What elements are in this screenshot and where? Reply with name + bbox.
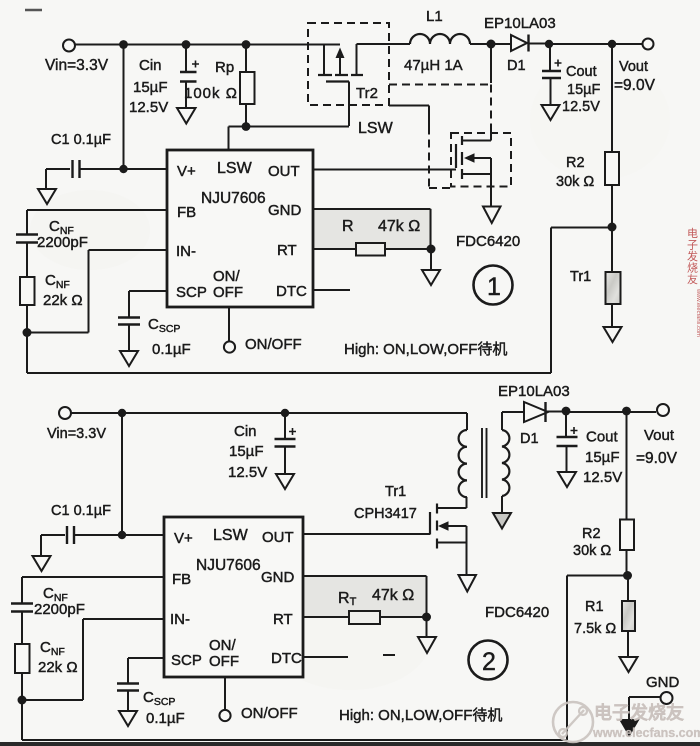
node output divider junction (circuit 2) [623, 571, 632, 580]
svg-text:Tr1: Tr1 [385, 484, 406, 500]
svg-text:OUT: OUT [262, 529, 294, 546]
svg-text:电: 电 [687, 227, 698, 240]
svg-text:FDC6420: FDC6420 [456, 233, 520, 250]
svg-text:Cin: Cin [139, 57, 162, 74]
svg-text:RT: RT [273, 611, 293, 628]
svg-text:电子发烧友: 电子发烧友 [594, 702, 684, 723]
svg-text:V+: V+ [177, 163, 196, 180]
corner mark top-left [25, 9, 42, 12]
svg-text:R2: R2 [566, 155, 585, 171]
label circled 1 [474, 266, 513, 305]
svg-text:47µH 1A: 47µH 1A [404, 57, 463, 74]
svg-text:15µF: 15µF [585, 449, 620, 466]
wire GND pin (circuit 1) [313, 209, 431, 249]
wire LSW net to Tr2 gate [246, 126, 349, 128]
svg-text:EP10LA03: EP10LA03 [498, 383, 570, 400]
svg-text:LSW: LSW [213, 527, 249, 544]
wire bottom feedback rail (circuit 1) [27, 228, 612, 374]
svg-text:发: 发 [687, 249, 698, 263]
transistor Q2 N-ch (circuit 1, dashed pkg) [451, 44, 511, 223]
resistor R2 30k (circuit 2) [573, 411, 634, 576]
label circled 2 [469, 641, 508, 680]
svg-text:2: 2 [482, 648, 496, 676]
svg-text:LSW: LSW [358, 120, 394, 137]
svg-text:Tr1: Tr1 [570, 269, 591, 285]
svg-text:ON/: ON/ [209, 637, 237, 654]
input terminal Vin (circuit 2) [47, 407, 106, 442]
svg-text:12.5V: 12.5V [583, 469, 622, 486]
node output divider junction [608, 223, 617, 232]
svg-text:12.5V: 12.5V [228, 464, 267, 481]
transistor Tr1 CPH3417 (circuit 2) [354, 484, 476, 592]
svg-text:R2: R2 [582, 526, 601, 542]
output terminal Vout (circuit 1) [614, 39, 656, 95]
wire OUT pin to Tr1 gate (circuit 2) [303, 533, 430, 535]
svg-text:High: ON,LOW,OFF待机: High: ON,LOW,OFF待机 [339, 707, 502, 724]
svg-text:High: ON,LOW,OFF待机: High: ON,LOW,OFF待机 [344, 341, 507, 358]
wire FB network (circuit 1) [27, 210, 167, 234]
svg-text:47k Ω: 47k Ω [378, 218, 420, 235]
node rail junction V+ (circuit 2) [118, 409, 126, 417]
svg-text:IN-: IN- [176, 243, 196, 260]
svg-text:D1: D1 [520, 431, 539, 447]
node V+ junction [119, 165, 127, 173]
resistor R1 7.5k (circuit 2) [574, 576, 638, 673]
svg-text:友: 友 [687, 272, 698, 286]
node Cout junction [545, 40, 553, 48]
svg-text:100k Ω: 100k Ω [184, 85, 238, 102]
svg-text:FDC6420: FDC6420 [485, 604, 549, 621]
svg-text:Vin=3.3V: Vin=3.3V [47, 426, 106, 442]
wire top rail (circuit 1) [75, 43, 410, 46]
wire LSW pin to junction [229, 127, 247, 151]
watermark text elecfans [592, 702, 700, 740]
wire OUT pin to Tr2b gate [313, 169, 456, 171]
svg-text:ON/OFF: ON/OFF [245, 336, 302, 353]
node rail junction Cin (circuit 2) [281, 409, 289, 417]
terminal GND (circuit 2) [621, 674, 680, 735]
svg-text:EP10LA03: EP10LA03 [484, 15, 556, 32]
node LSW junction [242, 122, 251, 131]
node switch junction [487, 40, 496, 49]
svg-text:CPH3417: CPH3417 [354, 506, 417, 522]
svg-text:GND: GND [268, 202, 302, 219]
transformer T1 secondary [493, 412, 511, 529]
svg-text:12.5V: 12.5V [562, 99, 600, 115]
svg-text:0.1µF: 0.1µF [152, 341, 191, 358]
svg-text:OUT: OUT [268, 163, 300, 180]
capacitor C1 (circuit 2) [33, 503, 165, 571]
svg-text:R: R [342, 218, 354, 235]
node R2 junction top [608, 40, 616, 48]
node V+ junction (circuit 2) [118, 531, 126, 539]
svg-text:DTC: DTC [271, 650, 302, 667]
wire dashed pkg link FDC6420 [389, 85, 491, 189]
wire DTC stub (circuit 1) [313, 289, 350, 291]
inductor L1 47uH [404, 8, 470, 74]
op-amp U1 NJU7606 (circuit 1) [167, 150, 313, 307]
transistor Q1 Tr2 P-ch (circuit 1, dashed pkg) [308, 23, 389, 126]
svg-text:12.5V: 12.5V [129, 99, 168, 116]
svg-text:www.elecfans.com: www.elecfans.com [695, 288, 700, 337]
svg-text:DTC: DTC [276, 283, 307, 300]
svg-text:GND: GND [261, 569, 295, 586]
wire bottom feedback rail (circuit 2) [22, 576, 628, 741]
svg-text:0.1µF: 0.1µF [146, 710, 185, 727]
wire V+ riser (circuit 2) [121, 413, 123, 535]
node Vin rail junction 2 [182, 40, 191, 49]
ground below R 47k (circuit 1) [422, 249, 440, 285]
svg-text:OFF: OFF [209, 653, 239, 670]
wire IN- pin (circuit 2) [22, 619, 164, 700]
svg-text:30k Ω: 30k Ω [556, 174, 594, 190]
svg-text:Rp: Rp [215, 59, 234, 76]
terminal ON/OFF (circuit 1) [224, 307, 302, 353]
svg-text:Tr2: Tr2 [356, 85, 378, 102]
svg-text:2200pF: 2200pF [34, 601, 85, 618]
svg-text:15µF: 15µF [567, 82, 600, 98]
svg-text:C1 0.1µF: C1 0.1µF [51, 503, 111, 519]
wire DTC stub (circuit 2) [303, 655, 395, 657]
diode D1 EP10LA03 (circuit 2) [498, 383, 570, 447]
node Vin rail junction 3 [242, 40, 251, 49]
svg-text:SCP: SCP [171, 652, 202, 669]
svg-text:7.5k Ω: 7.5k Ω [574, 621, 616, 637]
node R2 junction (circuit 2) [622, 407, 631, 416]
op-amp U2 NJU7606 (circuit 2) [164, 517, 303, 677]
wire IN- pin (circuit 1) [27, 250, 167, 333]
capacitor Cin (circuit 2) [228, 413, 296, 489]
terminal ON/OFF (circuit 2) [219, 677, 297, 722]
watermark vertical right edge [687, 227, 700, 337]
wire top rail (circuit 2) [71, 412, 467, 414]
capacitor C1 (circuit 1) [38, 132, 167, 204]
svg-text:R1: R1 [585, 599, 604, 615]
node RT/GND junction (circuit 2) [422, 613, 431, 622]
node Cout junction (circuit 2) [562, 407, 571, 416]
capacitor CSCP 0.1uF (circuit 1) [118, 316, 191, 366]
svg-text:22k Ω: 22k Ω [38, 659, 78, 676]
resistor R 47k (circuit 1) [313, 218, 431, 256]
resistor Rp 100k (circuit 1) [184, 45, 255, 127]
ground below RT 47k (circuit 2) [418, 617, 436, 653]
shaded highlight box around R 47k (circuit 1) [310, 208, 432, 250]
node NF divider junction [23, 328, 32, 337]
svg-text:2200pF: 2200pF [37, 234, 88, 251]
svg-text:L1: L1 [426, 8, 443, 25]
svg-text:=9.0V: =9.0V [614, 77, 656, 94]
resistor RNF 22k (circuit 1) [20, 243, 83, 333]
svg-text:烧: 烧 [687, 262, 698, 275]
svg-text:15µF: 15µF [229, 443, 264, 460]
svg-text:LSW: LSW [217, 160, 253, 177]
svg-text:NJU7606: NJU7606 [196, 557, 261, 574]
svg-text:NJU7606: NJU7606 [201, 190, 266, 207]
svg-text:Vout: Vout [644, 427, 675, 444]
svg-text:子: 子 [687, 239, 698, 252]
wire GND pin (circuit 2) [303, 576, 427, 617]
thermistor Tr1 (circuit 1) [570, 227, 622, 342]
output terminal Vout (circuit 2) [636, 404, 678, 467]
svg-text:GND: GND [646, 674, 680, 691]
node RT/GND junction [427, 245, 436, 254]
transformer T1 primary [459, 413, 467, 508]
svg-text:Cin: Cin [234, 423, 257, 440]
svg-text:Vout: Vout [619, 59, 648, 75]
capacitor Cout (circuit 2) [557, 412, 623, 487]
shaded highlight box around RT 47k (circuit 2) [304, 576, 426, 619]
resistor RT 47k (circuit 2) [303, 587, 427, 624]
svg-text:SCP: SCP [176, 284, 207, 301]
capacitor CSCP 0.1uF (circuit 2) [117, 684, 185, 728]
svg-text:Cout: Cout [566, 64, 597, 80]
node NF divider junction (circuit 2) [18, 696, 27, 705]
capacitor Cout (circuit 1) [542, 44, 601, 120]
wire L1 to D1 [470, 43, 511, 45]
svg-text:RT: RT [277, 242, 297, 259]
svg-text:D1: D1 [507, 58, 526, 74]
svg-text:ON/: ON/ [213, 268, 241, 285]
wire secondary to diode (circuit 2) [502, 411, 524, 413]
svg-text:22k Ω: 22k Ω [43, 292, 83, 309]
watermark logo elecfans [553, 702, 593, 742]
svg-text:FB: FB [172, 571, 191, 588]
wire FB network (circuit 2) [22, 577, 164, 603]
bottom border line [0, 742, 700, 746]
svg-text:V+: V+ [174, 530, 193, 547]
svg-text:Vin=3.3V: Vin=3.3V [45, 57, 109, 74]
svg-text:www.elecfans.com: www.elecfans.com [592, 726, 700, 740]
capacitor CNF 2200pF (circuit 1) [16, 218, 88, 251]
svg-text:15µF: 15µF [133, 79, 168, 96]
transformer T1 core [482, 428, 487, 498]
wire output rail (circuit 1) [549, 43, 642, 45]
resistor R2 30k (circuit 1) [556, 44, 619, 227]
input terminal Vin (circuit 1) [45, 40, 109, 75]
diode D1 EP10LA03 (circuit 1) [484, 15, 556, 74]
svg-text:FB: FB [177, 204, 196, 221]
svg-text:1: 1 [487, 273, 501, 301]
wire SCP pin (circuit 1) [129, 291, 167, 317]
svg-text:47k Ω: 47k Ω [372, 587, 414, 604]
wire V+ drop (circuit 1) [123, 45, 125, 170]
resistor RNF 22k (circuit 2) [15, 612, 78, 701]
svg-text:C1 0.1µF: C1 0.1µF [51, 132, 111, 148]
svg-text:30k Ω: 30k Ω [573, 543, 611, 559]
wire SCP pin (circuit 2) [128, 658, 164, 683]
capacitor Cin (circuit 1) [129, 45, 199, 124]
svg-text:IN-: IN- [170, 611, 190, 628]
capacitor CNF 2200pF (circuit 2) [11, 585, 85, 618]
wire output rail (circuit 2) [568, 411, 656, 413]
node Vin rail junction 1 [119, 40, 128, 49]
svg-text:OFF: OFF [213, 284, 243, 301]
svg-text:Cout: Cout [586, 429, 619, 446]
svg-text:ON/OFF: ON/OFF [241, 705, 298, 722]
svg-text:=9.0V: =9.0V [636, 450, 678, 467]
